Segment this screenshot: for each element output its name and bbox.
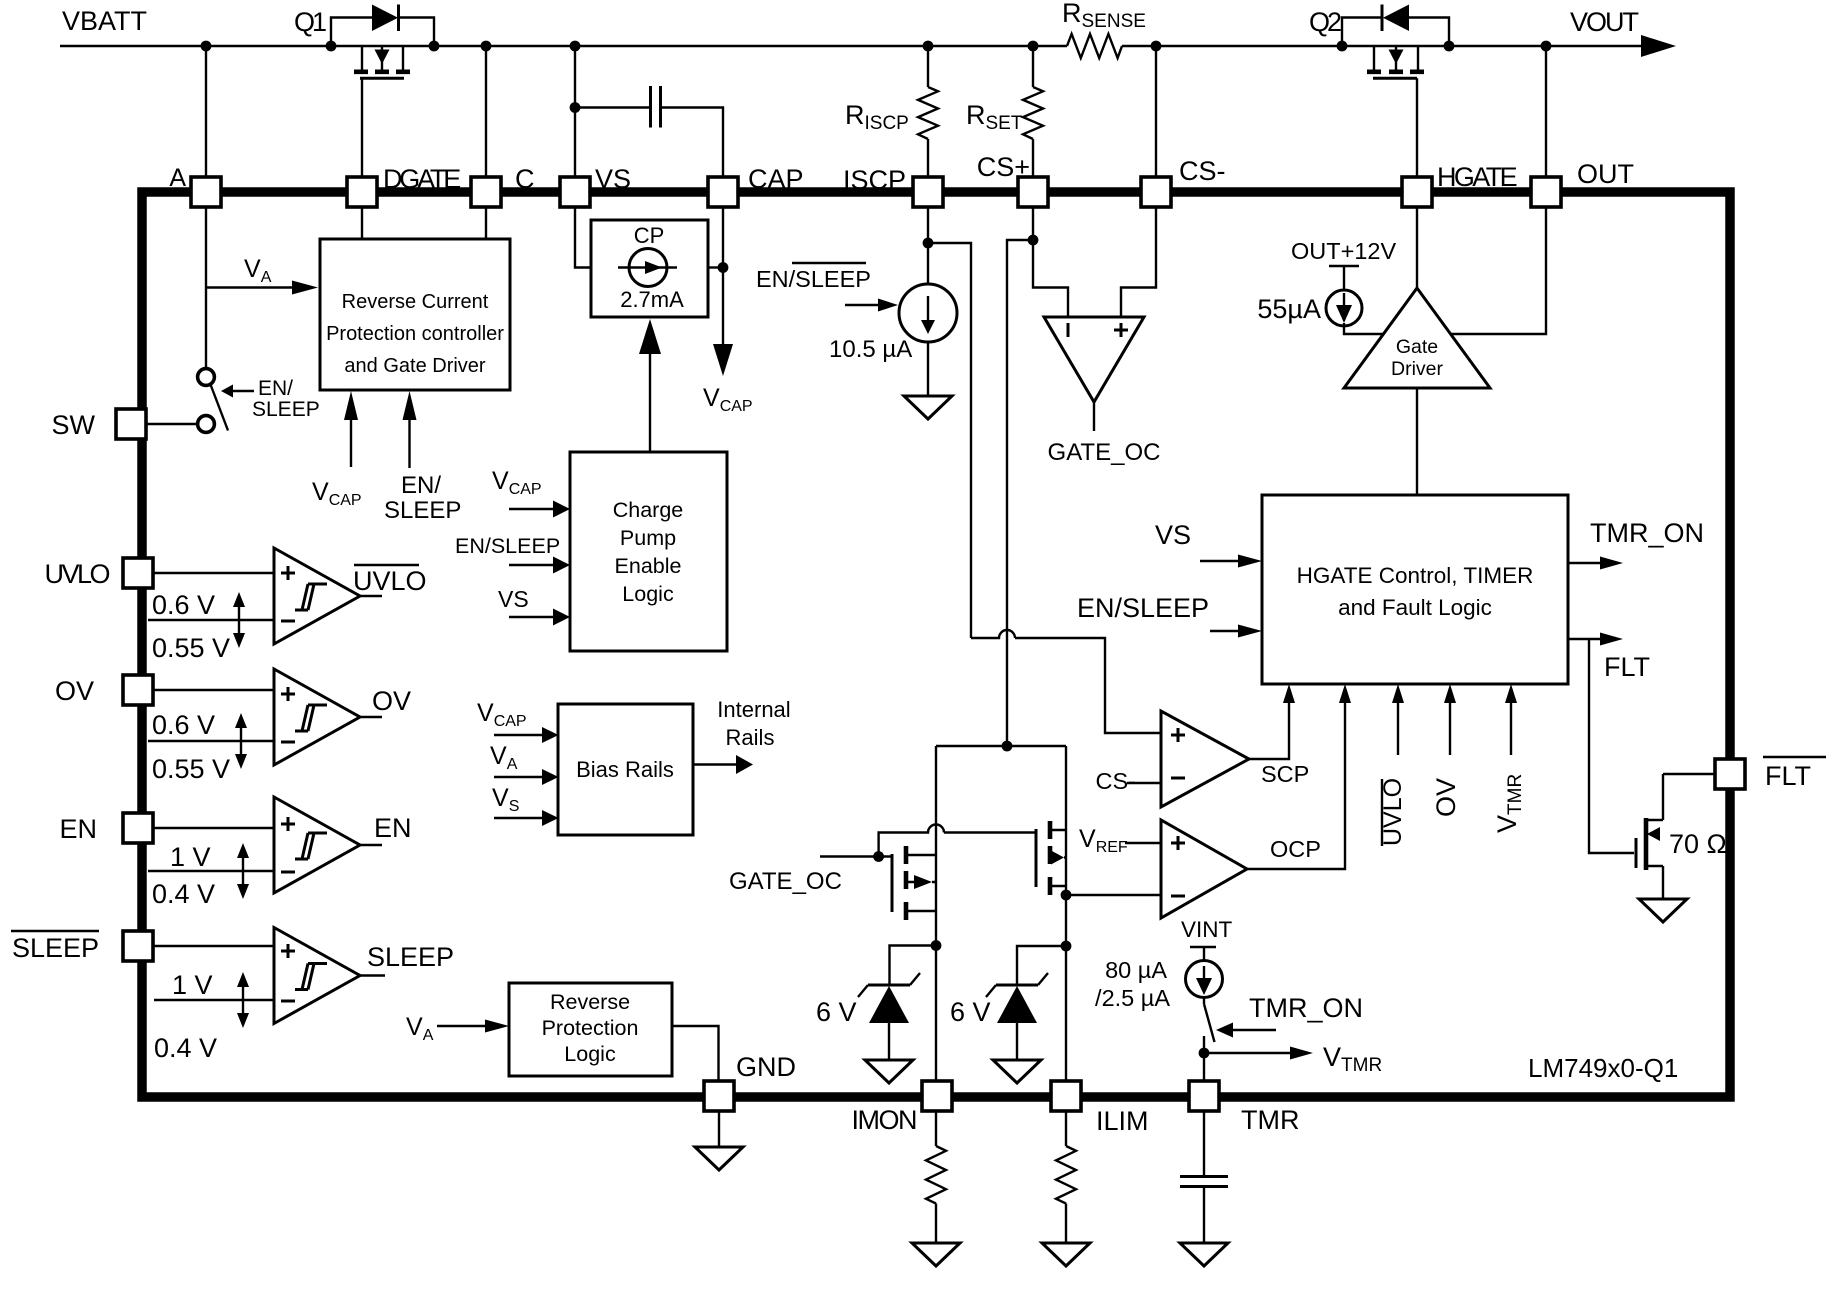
node VCAP input arrow to CPE — [492, 467, 570, 518]
node EN/SLEEP control arrow to 10.5uA source — [756, 263, 898, 312]
svg-text:TMR_ON: TMR_ON — [1590, 518, 1704, 548]
svg-text:SCP: SCP — [1261, 761, 1309, 787]
pin ILIM — [1051, 1081, 1149, 1136]
wire IMON vertical — [935, 746, 937, 1081]
node VCAP output arrow below CAP pin — [703, 207, 753, 415]
pin A — [169, 164, 221, 207]
wire VBATT rail right — [1122, 45, 1642, 47]
pin TMR — [1189, 1081, 1299, 1135]
pin OUT — [1531, 159, 1634, 207]
op-amp OCP comparator — [1061, 684, 1351, 918]
svg-text:70 Ω: 70 Ω — [1669, 829, 1727, 859]
comparator UVLO — [148, 548, 427, 663]
svg-text:0.6 V: 0.6 V — [152, 710, 215, 740]
svg-text:1 V: 1 V — [170, 842, 211, 872]
svg-text:VS: VS — [1155, 520, 1191, 550]
resistor below IMON pin — [912, 1111, 960, 1266]
pin EN — [59, 813, 153, 844]
svg-text:80 µA: 80 µA — [1105, 957, 1167, 983]
svg-text:OV: OV — [1431, 778, 1461, 817]
block HGATE Control TIMER and Fault Logic — [1262, 495, 1568, 684]
node VTMR output arrow — [1204, 1042, 1382, 1076]
node UVLO input arrow to HGATE logic (rotated label) — [1379, 684, 1407, 846]
wire FLT branch to pulldown FET gate — [1589, 639, 1634, 853]
svg-text:Bias Rails: Bias Rails — [576, 757, 674, 782]
wire ISCP node to SCP comparator (with hop) — [928, 243, 1161, 733]
svg-text:EN/SLEEP: EN/SLEEP — [1077, 593, 1209, 623]
current source 80uA/2.5uA (VINT) — [1095, 917, 1232, 1011]
svg-text:OV: OV — [372, 686, 411, 716]
wire Gate Driver to HGATE pin — [1416, 207, 1418, 288]
svg-text:6 V: 6 V — [816, 997, 857, 1027]
svg-text:Logic: Logic — [622, 582, 674, 606]
svg-text:GATE_OC: GATE_OC — [729, 868, 842, 895]
wire VBATT rail left — [60, 45, 1067, 47]
wire VA tap to RCP — [206, 255, 318, 295]
wire HGATE logic to Gate Driver — [1416, 388, 1418, 495]
wire VS branch — [574, 46, 576, 177]
resistor RISCP — [845, 87, 938, 139]
svg-text:Enable: Enable — [615, 554, 682, 578]
svg-text:EN/SLEEP: EN/SLEEP — [455, 534, 560, 558]
svg-text:FLT: FLT — [1604, 652, 1650, 682]
svg-text:ISCP: ISCP — [843, 165, 906, 195]
switch SW (EN/SLEEP controlled) — [198, 369, 228, 433]
switch TMR_ON — [1199, 998, 1215, 1059]
svg-text:LM749x0-Q1: LM749x0-Q1 — [1528, 1053, 1678, 1083]
svg-text:A: A — [169, 164, 186, 192]
node GATE_OC label left — [729, 868, 842, 895]
svg-text:Logic: Logic — [564, 1042, 616, 1066]
node TMR_ON control arrow — [1216, 993, 1363, 1038]
svg-text:SLEEP: SLEEP — [12, 933, 99, 963]
wire FLT pin to pulldown FET — [1663, 773, 1715, 775]
pin C — [471, 164, 535, 207]
svg-text:CS+: CS+ — [977, 152, 1030, 182]
capacitor C1 (VS-CAP) — [575, 86, 723, 177]
zener diode 6V (IMON) — [816, 940, 941, 1083]
pin HGATE — [1402, 162, 1517, 207]
svg-text:TMR_ON: TMR_ON — [1249, 993, 1363, 1023]
svg-text:SW: SW — [52, 410, 96, 440]
current source 10.5uA — [829, 284, 957, 419]
svg-text:0.55 V: 0.55 V — [152, 754, 230, 784]
node VCAP input arrow to Bias Rails — [477, 699, 559, 743]
junction dots on rail — [201, 41, 1552, 52]
node VOUT arrow — [1570, 7, 1676, 57]
wire C branch — [485, 46, 487, 177]
wire charge pump enable to CP box (up arrow) — [639, 319, 661, 452]
wire A branch — [205, 46, 207, 177]
pin UVLO — [44, 558, 153, 589]
svg-text:VBATT: VBATT — [62, 6, 147, 36]
comparator SLEEP — [153, 928, 454, 1064]
node TMR_ON output arrow — [1568, 518, 1704, 570]
svg-text:EN/SLEEP: EN/SLEEP — [756, 266, 871, 292]
IC boundary box — [142, 192, 1730, 1097]
node VA input arrow to RPL — [406, 1013, 509, 1044]
svg-text:SLEEP: SLEEP — [384, 497, 461, 524]
transistor 70ohm FLT pulldown — [1636, 774, 1727, 922]
svg-text:Q2: Q2 — [1309, 7, 1341, 37]
pin ISCP — [843, 165, 943, 207]
block CP charge pump current source 2.7mA — [591, 220, 708, 317]
pin SW — [52, 409, 147, 440]
svg-text:/2.5 µA: /2.5 µA — [1095, 985, 1170, 1011]
svg-text:IMON: IMON — [852, 1105, 917, 1135]
block Reverse Protection Logic — [509, 983, 672, 1076]
svg-text:GATE_OC: GATE_OC — [1048, 439, 1161, 466]
pin CS+ — [977, 152, 1048, 207]
op-amp GATE_OC comparator — [1044, 317, 1160, 466]
node VTMR input arrow to HGATE logic (rotated label) — [1492, 684, 1526, 833]
svg-text:0.6 V: 0.6 V — [152, 590, 215, 620]
node Internal Rails output arrow — [693, 697, 791, 774]
svg-text:CS-: CS- — [1179, 156, 1226, 186]
node cap junction dot — [570, 102, 581, 113]
node LM749x0-Q1 part label — [1528, 1053, 1678, 1083]
pin CS- — [1141, 156, 1226, 207]
svg-text:Protection: Protection — [542, 1016, 639, 1040]
svg-text:VS: VS — [595, 164, 631, 194]
svg-text:Rails: Rails — [726, 725, 775, 750]
wire CS- branch — [1155, 46, 1157, 177]
wire RPL to GND pin — [672, 1026, 719, 1081]
block Charge Pump Enable Logic — [570, 452, 727, 651]
op-amp Gate Driver — [1344, 288, 1490, 388]
pin IMON — [852, 1081, 953, 1135]
svg-text:EN: EN — [59, 814, 97, 844]
svg-text:HGATE Control, TIMER: HGATE Control, TIMER — [1297, 563, 1534, 588]
node EN/SLEEP input arrow to RCP — [384, 391, 461, 524]
pin DGATE — [347, 164, 460, 207]
current source 55uA (OUT+12V) — [1257, 238, 1396, 334]
svg-text:and Gate Driver: and Gate Driver — [344, 355, 486, 377]
svg-text:55µA: 55µA — [1257, 294, 1321, 324]
svg-text:Gate: Gate — [1396, 336, 1438, 358]
wire A pin to switch — [205, 207, 207, 369]
svg-text:ILIM: ILIM — [1096, 1106, 1149, 1136]
node OV input arrow to HGATE logic (rotated label) — [1431, 684, 1461, 817]
svg-text:2.7mA: 2.7mA — [620, 287, 684, 312]
zener diode 6V (ILIM) — [950, 941, 1071, 1083]
svg-text:VS: VS — [498, 586, 529, 612]
svg-text:OCP: OCP — [1270, 836, 1321, 862]
pin FLT (overlined) — [1715, 757, 1826, 791]
wire OUT branch — [1545, 46, 1547, 177]
svg-text:C: C — [515, 164, 535, 194]
node VS input arrow to HGATE logic — [1155, 520, 1262, 568]
wire CS+ branch — [1032, 46, 1034, 177]
op-amp SCP comparator — [1096, 684, 1310, 807]
svg-text:EN: EN — [374, 813, 412, 843]
wire GATE_OC to FET gates (with hop over IMON line) — [820, 825, 1036, 862]
svg-text:OV: OV — [55, 676, 94, 706]
svg-text:Protection controller: Protection controller — [326, 323, 504, 345]
block Reverse Current Protection controller and Gate Driver — [320, 239, 510, 390]
wire OUT pin feedback to Gate Driver — [1451, 207, 1546, 334]
wire SW pin to switch — [146, 423, 197, 425]
node VA input arrow to Bias Rails — [490, 742, 559, 785]
wire CS+ pin to GATE_OC comp minus input — [1028, 207, 1068, 317]
svg-text:VINT: VINT — [1181, 917, 1233, 942]
node FLT output arrow — [1568, 633, 1650, 683]
svg-text:TMR: TMR — [1241, 1105, 1299, 1135]
pin GND — [704, 1052, 796, 1111]
pin SLEEP (overlined) — [11, 931, 153, 963]
svg-text:SLEEP: SLEEP — [252, 398, 320, 421]
svg-text:Pump: Pump — [620, 526, 676, 550]
wire CS- pin to GATE_OC comp plus input — [1121, 207, 1156, 317]
capacitor below TMR pin — [1180, 1111, 1228, 1266]
node VBATT label — [62, 6, 147, 36]
wire VS pin to CP box — [575, 207, 591, 268]
resistor RSET — [966, 87, 1043, 139]
wire switch to TMR pin — [1203, 1053, 1205, 1081]
pin OV — [55, 675, 153, 706]
svg-text:6 V: 6 V — [950, 997, 991, 1027]
comparator OV — [148, 669, 411, 784]
svg-text:EN/: EN/ — [401, 472, 441, 499]
svg-text:GND: GND — [736, 1052, 796, 1082]
svg-text:and Fault Logic: and Fault Logic — [1338, 595, 1492, 620]
svg-text:Driver: Driver — [1391, 358, 1444, 380]
svg-text:1 V: 1 V — [172, 970, 213, 1000]
node VCAP input arrow to RCP — [312, 391, 362, 509]
svg-text:UVLO: UVLO — [44, 559, 109, 589]
block Bias Rails — [558, 704, 693, 835]
svg-text:SLEEP: SLEEP — [367, 942, 454, 972]
pin CAP — [708, 164, 804, 207]
svg-text:0.55 V: 0.55 V — [152, 633, 230, 663]
node EN/SLEEP input arrow to HGATE logic — [1077, 593, 1262, 638]
wire ILIM vertical — [1065, 746, 1067, 1081]
svg-text:10.5 µA: 10.5 µA — [829, 336, 912, 363]
ground below GND pin — [695, 1111, 743, 1170]
wire DGATE pin to RCP — [361, 207, 363, 239]
svg-text:CAP: CAP — [748, 164, 804, 194]
transistor M2 (ILIM clamp FET) — [1036, 821, 1066, 895]
svg-text:OUT+12V: OUT+12V — [1291, 238, 1396, 264]
svg-text:CP: CP — [634, 223, 665, 248]
svg-text:Q1: Q1 — [294, 7, 326, 37]
resistor RSENSE — [1062, 0, 1146, 58]
node EN/SLEEP switch control — [221, 377, 320, 421]
svg-text:Reverse: Reverse — [550, 990, 630, 1014]
wire C pin to RCP — [485, 207, 487, 239]
svg-text:Reverse Current: Reverse Current — [342, 291, 489, 313]
svg-text:EN/: EN/ — [258, 377, 293, 400]
svg-text:Charge: Charge — [613, 498, 684, 522]
wire ISCP pin down to 10.5uA source — [923, 207, 934, 284]
node VS input arrow to CPE — [498, 586, 570, 626]
transistor M1 (IMON clamp FET) — [892, 846, 936, 920]
comparator EN — [148, 797, 412, 909]
wire ISCP branch — [927, 46, 929, 177]
pin VS — [560, 164, 631, 207]
svg-text:Internal: Internal — [717, 697, 790, 722]
node VS input arrow to Bias Rails — [492, 784, 559, 826]
node EN/SLEEP input arrow to CPE — [455, 534, 570, 574]
svg-text:CS-: CS- — [1096, 768, 1136, 794]
svg-text:OUT: OUT — [1577, 159, 1634, 189]
svg-text:VOUT: VOUT — [1570, 7, 1639, 37]
wire CP box to CAP pin — [708, 262, 728, 273]
svg-text:UVLO: UVLO — [353, 566, 427, 596]
svg-text:DGATE: DGATE — [383, 164, 460, 194]
transistor Q2 — [1309, 5, 1449, 178]
transistor Q1 — [294, 5, 434, 178]
svg-text:FLT: FLT — [1765, 761, 1811, 791]
wire CS+ node down to IMON/ILIM branches — [936, 240, 1066, 751]
svg-text:HGATE: HGATE — [1437, 162, 1517, 192]
svg-text:0.4 V: 0.4 V — [152, 879, 215, 909]
svg-text:0.4 V: 0.4 V — [154, 1033, 217, 1063]
resistor below ILIM pin — [1042, 1111, 1090, 1266]
